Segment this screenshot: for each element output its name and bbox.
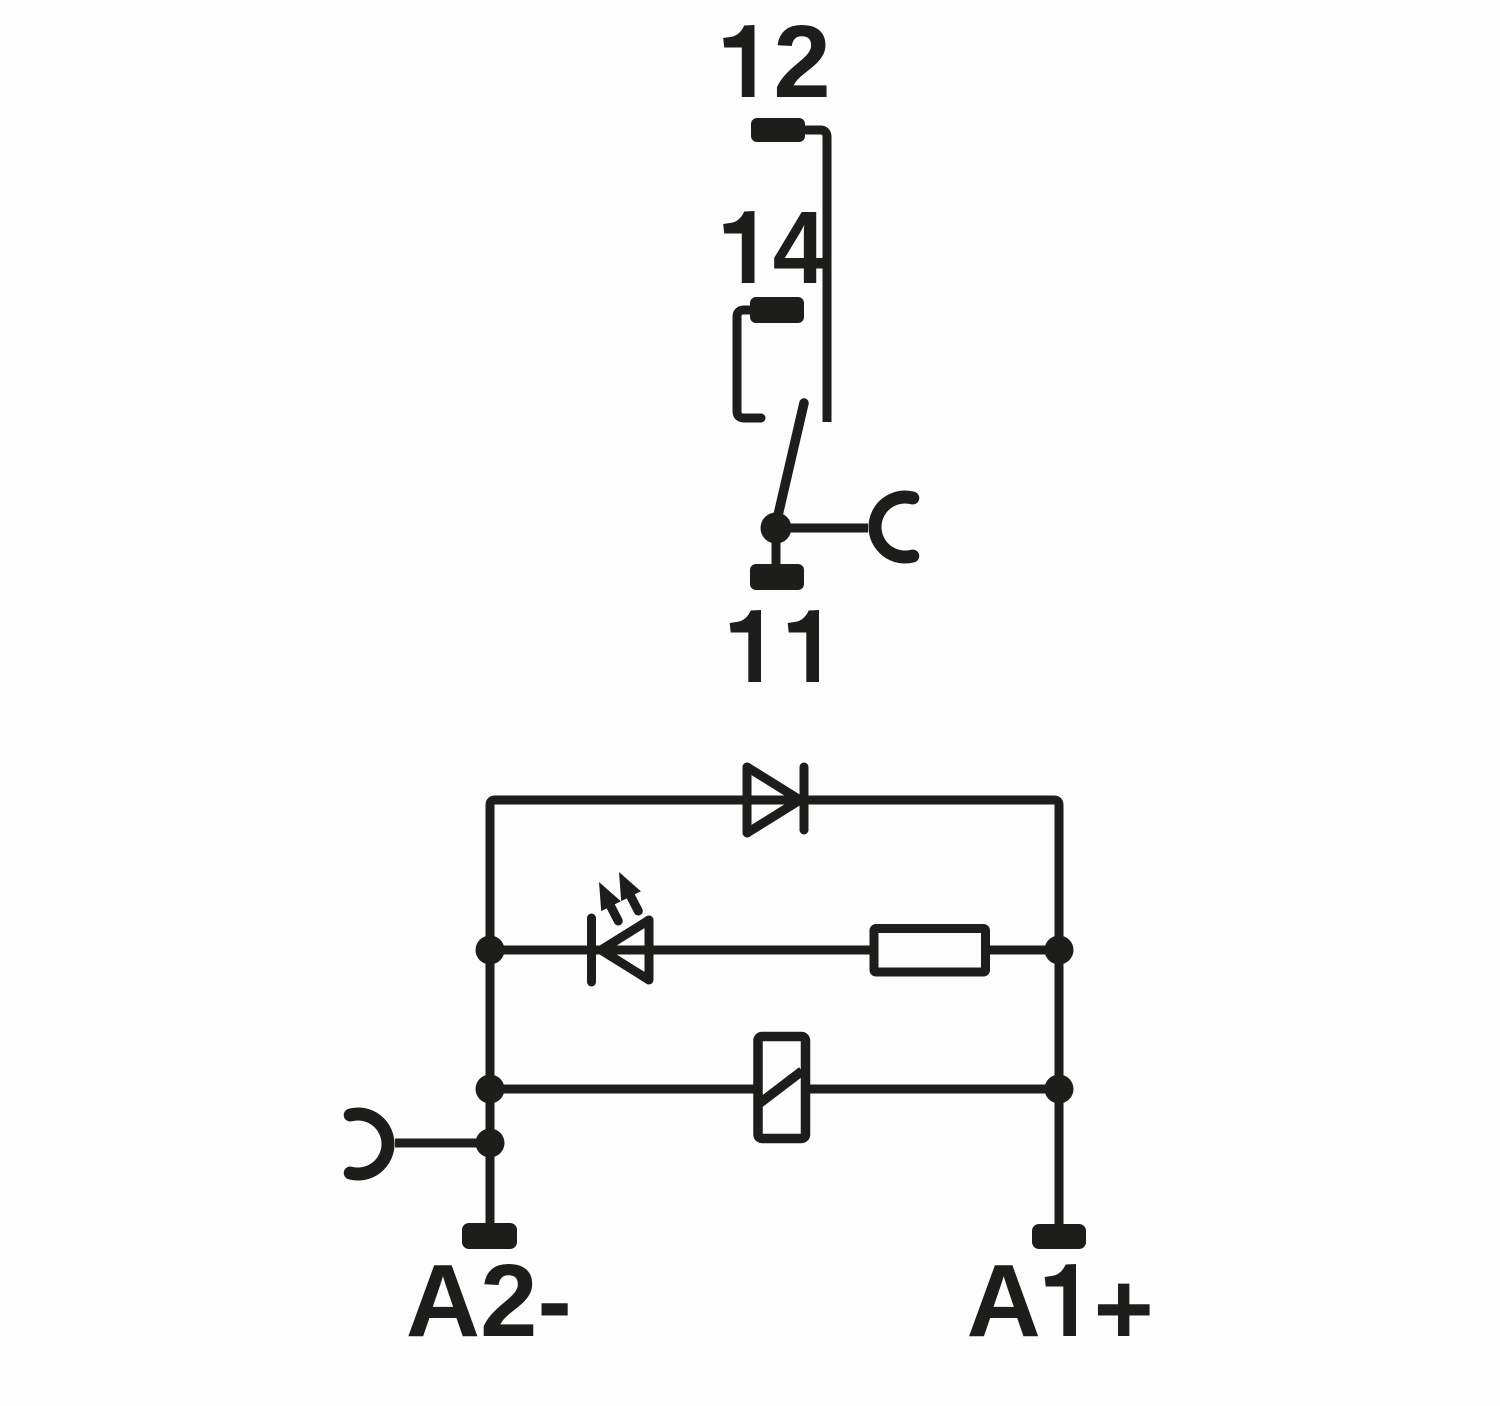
svg-text:2: 2 xyxy=(773,4,830,119)
svg-text:4: 4 xyxy=(773,189,826,305)
svg-text:+: + xyxy=(1094,1251,1154,1366)
svg-text:A: A xyxy=(967,1243,1041,1358)
svg-text:A2-: A2- xyxy=(406,1243,572,1358)
